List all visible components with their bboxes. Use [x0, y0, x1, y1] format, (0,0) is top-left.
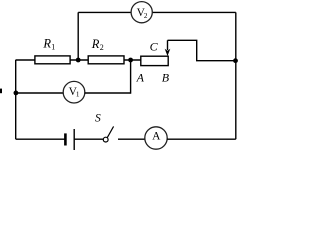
wire between R1 and R2 [70, 59, 88, 61]
resistor R2 [88, 37, 124, 64]
wire top from junction to V2 [78, 11, 131, 13]
svg-text:B: B [162, 71, 170, 85]
wire V1 left [16, 92, 64, 94]
battery long plate [73, 129, 75, 150]
svg-text:2: 2 [144, 12, 148, 20]
svg-text:1: 1 [51, 43, 55, 52]
svg-text:S: S [95, 113, 101, 125]
wire V1 right [85, 92, 131, 94]
switch S [95, 113, 114, 142]
wire bottom left to battery [16, 138, 66, 140]
junction dot left V1 node [14, 91, 19, 96]
junction dot R2-C node [128, 58, 133, 63]
wire vertical from R2-C node down to V1 wire [130, 60, 132, 94]
svg-text:C: C [150, 40, 159, 54]
rheostat slider arrow [165, 40, 171, 56]
junction dot right vertical [233, 58, 238, 63]
edge mark left [0, 89, 2, 94]
svg-text:R: R [91, 37, 100, 51]
wire left horizontal to R1 [16, 59, 35, 61]
wire between R2 and C [124, 59, 141, 61]
svg-text:R: R [42, 37, 51, 51]
wire top from V2 to right corner [152, 11, 236, 13]
wire right vertical [235, 12, 237, 139]
svg-text:A: A [152, 131, 161, 143]
resistor R1 [35, 37, 70, 64]
voltmeter V1 [63, 81, 85, 103]
junction dot R1-R2 [76, 58, 81, 63]
svg-text:A: A [136, 71, 145, 85]
wire battery to switch [74, 138, 103, 140]
rheostat C box [141, 40, 168, 66]
svg-text:1: 1 [76, 91, 80, 99]
battery short plate [64, 133, 67, 145]
wire switch to ammeter [118, 138, 145, 140]
ammeter A [145, 127, 167, 149]
wire slider step to right vertical [168, 40, 236, 60]
wire vertical from top wire to R1-R2 junction [77, 12, 79, 60]
svg-text:2: 2 [100, 43, 104, 52]
wire ammeter to right corner [167, 138, 236, 140]
voltmeter V2 [131, 2, 152, 23]
wire left vertical [15, 60, 17, 139]
